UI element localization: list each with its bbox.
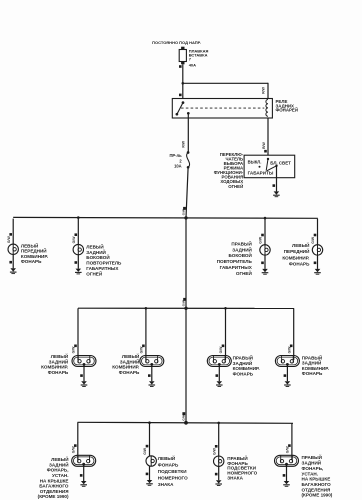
relay contact output dot <box>187 112 190 115</box>
wire fuse 2 down to bus row 1 <box>186 167 188 218</box>
label: left front combination lamp <box>21 242 48 264</box>
label: fusible link value <box>189 48 209 67</box>
wire label G/W above bus row 3 <box>182 414 186 420</box>
svg-text:G/W: G/W <box>72 446 76 454</box>
relay coil L1 <box>266 100 268 117</box>
connector pin below left rear lamp on trunk lid <box>80 474 83 477</box>
svg-text:G/W: G/W <box>212 447 216 455</box>
wire label on left licence plate lamp drop <box>143 447 147 455</box>
wire right rear combination lamp 2 to ground <box>286 364 288 381</box>
ground of left rear side marker repeater <box>75 269 82 274</box>
bus2 junction dots <box>145 307 227 310</box>
wire label on right rear combination lamp drop <box>219 346 223 354</box>
left rear combination lamp dual bulb <box>72 356 96 367</box>
connector pin above right front combination lamp <box>314 234 317 237</box>
label: running-lights mode selector switch <box>214 152 244 189</box>
connector pin below right front combination lamp <box>314 262 317 265</box>
wire drop to right licence plate lamp <box>218 423 220 456</box>
wire label R/W above fuse 2 <box>182 140 186 147</box>
label: left rear combination lamp <box>41 352 69 375</box>
bus1 junction dots <box>77 216 266 219</box>
ground of left rear combination lamp <box>81 381 88 386</box>
svg-text:ПОСТОЯННО ПОД НАПР.: ПОСТОЯННО ПОД НАПР. <box>152 40 201 45</box>
svg-text:G/W: G/W <box>259 236 263 244</box>
ground of right rear lamp on trunk lid <box>283 481 290 486</box>
connector pin above right rear lamp on trunk lid <box>288 444 291 447</box>
right licence plate lamp bulb <box>214 456 224 466</box>
wire switch to ground <box>276 166 278 192</box>
svg-text:G/W: G/W <box>143 447 147 455</box>
connector pin above left licence plate lamp <box>146 445 149 448</box>
connector pin below left rear side marker repeater <box>75 261 78 264</box>
wire drop to right front combination lamp <box>317 219 319 245</box>
ground of right rear combination lamp <box>216 381 223 386</box>
wire drop to right rear side marker repeater <box>264 219 266 245</box>
wire right front combination lamp to ground <box>317 255 319 269</box>
ground of left front combination lamp <box>10 268 17 273</box>
wire label on left rear lamp on trunk lid drop <box>72 446 76 454</box>
wire drop to left rear lamp on trunk lid <box>77 422 79 460</box>
main feed wire bus1 to bus2 <box>185 218 187 308</box>
switch off-position dot <box>259 166 261 168</box>
connector pin above right licence plate lamp <box>215 445 218 448</box>
left rear side marker repeater bulb <box>73 244 83 254</box>
svg-text:G/W: G/W <box>182 209 186 215</box>
wire drop to left front combination lamp <box>12 219 14 245</box>
svg-text:R/W: R/W <box>182 140 186 147</box>
label: fuse 2 10A <box>169 153 182 168</box>
left rear lamp on trunk lid dual bulb <box>72 455 96 466</box>
bus row 2 <box>78 307 294 309</box>
wire label R/W (coil feed) <box>262 86 266 93</box>
wire left rear lamp on trunk lid to ground <box>83 464 85 481</box>
ground of left rear combination lamp 2 <box>149 381 156 386</box>
connector pin above left rear combination lamp <box>74 345 77 348</box>
connector pin on switch ground wire <box>273 184 276 187</box>
node A junction dot <box>182 82 185 85</box>
label: constantly powered feed <box>152 40 201 45</box>
wire label on right rear combination lamp 2 drop <box>287 346 291 354</box>
relay contact open-end dot <box>176 113 179 116</box>
connector pin above bus row 1 <box>183 207 186 210</box>
wire relay output down to fuse 2 <box>187 114 189 153</box>
wire right rear combination lamp to ground <box>218 364 220 381</box>
label: right rear lamp on trunk lid <box>302 453 333 498</box>
svg-text:G/W: G/W <box>286 446 290 454</box>
svg-text:G/W: G/W <box>72 346 76 354</box>
wire label on left rear combination lamp drop <box>72 346 76 354</box>
svg-text:R/W: R/W <box>262 142 266 149</box>
ground of right front combination lamp <box>314 269 321 274</box>
ground of right licence plate lamp <box>215 480 222 485</box>
wire left licence plate lamp to ground <box>149 466 151 480</box>
wire label on left front combination lamp drop <box>7 236 11 244</box>
left licence plate lamp bulb <box>146 456 156 466</box>
label: rear lamps relay <box>276 99 299 112</box>
svg-text:G/W: G/W <box>219 346 223 354</box>
wire label G/W above bus row 1 <box>182 209 186 215</box>
connector pin below right licence plate lamp <box>215 473 218 476</box>
connector pin above right rear combination lamp <box>222 345 225 348</box>
wire label on right rear lamp on trunk lid drop <box>286 446 290 454</box>
label: switch low beam <box>270 160 291 165</box>
bus row 1 <box>13 216 318 219</box>
label: right rear combination lamp <box>233 353 260 376</box>
switch contact dot (gabarity) <box>275 165 277 167</box>
label: left rear side marker repeater <box>86 242 122 276</box>
label: right front combination lamp <box>282 241 310 267</box>
label: right rear combination lamp 2 <box>302 353 329 376</box>
wire left rear combination lamp 2 to ground <box>151 364 153 381</box>
connector pin below right rear combination lamp <box>216 374 219 377</box>
switch common dot <box>267 158 269 160</box>
wire label on right rear side marker repeater drop <box>259 236 263 244</box>
wire right rear side marker repeater to ground <box>264 255 266 269</box>
wire drop to right rear combination lamp 2 <box>293 308 295 360</box>
connector pin below fusible link <box>179 65 182 68</box>
wire label R/W above switch <box>262 142 266 149</box>
wire label on right licence plate lamp drop <box>212 447 216 455</box>
switch lever <box>266 159 268 171</box>
wire label on left rear combination lamp 2 drop <box>140 346 144 354</box>
connector pin above left rear combination lamp 2 <box>142 345 145 348</box>
wire label on right front combination lamp drop <box>311 236 315 244</box>
connector pin below right rear side marker repeater <box>261 262 264 265</box>
svg-text:G/W: G/W <box>7 236 11 244</box>
bus row 3 <box>78 422 294 423</box>
wire drop to right rear combination lamp <box>225 308 227 360</box>
connector pin above left rear side marker repeater <box>75 233 78 236</box>
wire label on left rear side marker repeater drop <box>72 236 76 244</box>
relay dashed link contact-to-coil <box>181 107 264 109</box>
svg-text:G/W: G/W <box>182 414 186 420</box>
mode selector switch S1 box <box>244 155 295 178</box>
wire drop to left rear side marker repeater <box>77 219 79 245</box>
svg-text:R/W: R/W <box>262 86 266 93</box>
svg-text:G/W: G/W <box>287 346 291 354</box>
relay contact lever <box>177 103 183 115</box>
right front combination lamp bulb <box>312 245 322 255</box>
label: switch OFF <box>248 159 262 164</box>
connector pin below right rear lamp on trunk lid <box>283 474 286 477</box>
svg-text:G/W: G/W <box>182 300 186 306</box>
svg-text:G/W: G/W <box>72 236 76 244</box>
main feed wire bus2 to bus3 <box>185 308 187 423</box>
label: left licence plate lamp <box>158 454 188 487</box>
switch lever to lamps contact <box>267 166 277 171</box>
svg-text:G/W: G/W <box>311 236 315 244</box>
wire relay coil to mode switch <box>267 118 269 156</box>
connector pin above switch <box>264 150 267 153</box>
connector pin below left rear combination lamp <box>80 374 83 377</box>
wire left rear combination lamp to ground <box>83 364 85 381</box>
connector pin below left rear combination lamp 2 <box>148 374 151 377</box>
wire left front combination lamp to ground <box>12 255 14 269</box>
wire label G/W above bus row 2 <box>182 300 186 306</box>
label: left rear lamp on trunk lid <box>38 455 69 499</box>
wire node A to relay coil feed (top horizontal) <box>183 82 268 84</box>
label: left rear combination lamp 2 <box>112 352 140 375</box>
relay K1 box (rear lamps relay) <box>172 99 272 119</box>
relay contact common dot <box>182 101 185 104</box>
ground of left rear lamp on trunk lid <box>80 481 87 486</box>
wire down to relay coil <box>267 83 269 99</box>
right rear lamp on trunk lid dual bulb <box>275 455 299 466</box>
label: switch parking lights <box>248 170 274 175</box>
ground of left licence plate lamp <box>146 480 153 485</box>
wire left rear side marker repeater to ground <box>77 255 79 269</box>
connector pin above relay contact <box>179 94 182 97</box>
connector pin above right rear side marker repeater <box>261 234 264 237</box>
connector pin above bus row 3 <box>182 412 185 415</box>
right rear combination lamp 2 dual bulb <box>275 356 299 367</box>
wire drop to right rear lamp on trunk lid <box>291 423 293 460</box>
label: right rear side marker repeater <box>217 240 253 276</box>
wire drop to left rear combination lamp 2 <box>145 308 147 360</box>
left rear combination lamp 2 dual bulb <box>140 356 164 367</box>
connector pin above bus row 2 <box>183 298 186 301</box>
wire from fusible link down to node A <box>182 64 184 98</box>
wire drop to left licence plate lamp <box>149 423 151 456</box>
label: right licence plate lamp <box>227 454 257 481</box>
wire drop to left rear combination lamp <box>77 308 79 360</box>
fusible link 7 40A <box>179 47 186 65</box>
ground of right rear combination lamp 2 <box>284 381 291 386</box>
connector pin below right rear combination lamp 2 <box>284 374 287 377</box>
connector pin above left front combination lamp <box>9 233 12 236</box>
right rear combination lamp dual bulb <box>207 356 231 367</box>
connector pin below left front combination lamp <box>9 261 12 264</box>
connector pin below left licence plate lamp <box>146 473 149 476</box>
wire right rear lamp on trunk lid to ground <box>286 464 288 481</box>
left front combination lamp bulb <box>8 244 18 254</box>
svg-text:G/W: G/W <box>140 346 144 354</box>
wire right licence plate lamp to ground <box>218 466 220 480</box>
ground of right rear side marker repeater <box>262 269 269 274</box>
right rear side marker repeater bulb <box>260 245 270 255</box>
connector pin above left rear lamp on trunk lid <box>74 444 77 447</box>
fuse F2 10A (S-symbol) <box>187 151 190 169</box>
ground below switch <box>273 191 280 196</box>
svg-text:ВЫКЛ.: ВЫКЛ. <box>248 159 262 164</box>
svg-text:БЛ. СВЕТ: БЛ. СВЕТ <box>270 160 291 165</box>
svg-text:ГАБАРИТЫ: ГАБАРИТЫ <box>248 170 274 175</box>
bus3 junction dots <box>148 421 220 425</box>
connector pin above right rear combination lamp 2 <box>290 345 293 348</box>
